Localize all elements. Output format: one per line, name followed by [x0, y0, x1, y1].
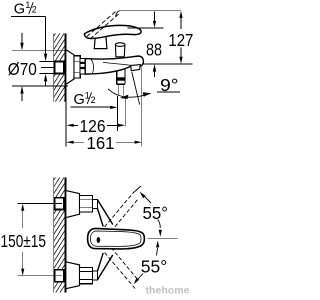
wall face (bottom view) [65, 178, 67, 293]
dimension 150+-15 [1, 204, 63, 276]
top neck [93, 200, 98, 209]
label G1/2 top-left [14, 0, 37, 17]
svg-text:127: 127 [168, 30, 193, 50]
svg-text:88: 88 [146, 39, 162, 59]
svg-text:161: 161 [87, 133, 115, 153]
svg-text:150±15: 150±15 [1, 231, 47, 251]
bottom union nut [80, 267, 93, 283]
svg-text:55°: 55° [141, 257, 168, 277]
dashed lever extreme up position [105, 193, 134, 227]
extension line A (hose union axis, G1/2 target) [117, 96, 119, 131]
svg-text:1: 1 [25, 0, 30, 10]
cartridge cap cone [94, 36, 107, 48]
top escutcheon cone [66, 191, 79, 218]
union hex nut (side view) [74, 56, 80, 78]
lever handle (side view, solid) [84, 25, 141, 38]
horizontal reference ray (lever rest direction) [148, 238, 178, 240]
svg-text:2: 2 [32, 5, 37, 15]
dashed lever extreme down position [105, 253, 136, 289]
bottom reference line (spout outlet, 88/127 bottom) [143, 63, 193, 65]
wall left edge (bottom view) [53, 178, 55, 293]
aerator [131, 65, 141, 71]
indicator dot on lever [97, 237, 101, 243]
top union nut [80, 196, 93, 212]
watermark thehome [146, 285, 190, 297]
inlet stub (G1/2 connection in wall) [55, 62, 64, 74]
bottom escutcheon cone [66, 262, 79, 289]
dimension 161 [66, 133, 141, 153]
label 55 deg top [140, 192, 168, 237]
svg-text:Ø70: Ø70 [8, 59, 37, 79]
lever handle (plan view, solid) [88, 228, 145, 249]
mid reference line (lever back, 88 top) [128, 27, 164, 29]
dimension 126 [66, 116, 125, 136]
faucet body and spout (side view) [85, 56, 143, 74]
svg-text:G: G [74, 92, 85, 108]
dimension 88 [146, 12, 162, 78]
svg-text:55°: 55° [143, 203, 169, 223]
bottom neck [93, 271, 98, 280]
wall face extension line down to 161 row [65, 102, 67, 147]
top reference line (127/88) [116, 11, 120, 17]
hose union below spout [116, 71, 118, 85]
label 55 deg bottom [134, 241, 168, 285]
top body cone [98, 200, 113, 225]
dimension 127 [168, 11, 193, 64]
body shoulder inner curve [91, 59, 94, 73]
escutcheon cone (side view) [66, 50, 74, 84]
wall hatching (side view) [54, 19, 65, 118]
lever inner contour [90, 231, 141, 246]
bottom body cone [98, 255, 113, 280]
svg-text:9°: 9° [160, 75, 179, 95]
inlet stub outline thin lines [40, 61, 55, 63]
extension line spout tip (161 right end) [141, 68, 143, 147]
dimension Ø70 [8, 33, 68, 101]
lever handle raised position (dashed phantom) [87, 11, 117, 37]
label G1/2 mid with arrow [70, 90, 117, 109]
union pipe with rings (side view) [80, 59, 85, 75]
wall hatching (bottom view) [54, 163, 65, 300]
hose union thread lines [117, 84, 119, 95]
up arrow to stub bottom [45, 81, 47, 86]
bottom union stub [55, 270, 64, 282]
svg-text:G: G [14, 2, 25, 18]
spout inner contour [103, 62, 131, 65]
wall face (side view) [65, 33, 67, 101]
top union stub [55, 198, 64, 210]
extension line B (126 dim right end) [124, 97, 126, 127]
wall left edge (side view) [53, 33, 55, 101]
svg-text:thehome: thehome [146, 285, 190, 297]
svg-text:2: 2 [91, 95, 96, 105]
centerline through stub [41, 67, 64, 69]
leader line of G1/2 top-left [11, 16, 46, 18]
9 degree angle marking [108, 72, 180, 105]
diverter knob on spout [115, 45, 125, 57]
